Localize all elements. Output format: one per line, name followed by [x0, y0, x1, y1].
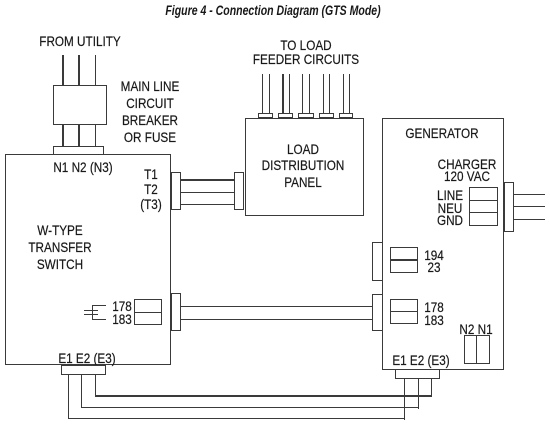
wire 183: [181, 319, 372, 320]
wire feeder 5a: [343, 74, 344, 114]
wire feeder 3a: [302, 74, 303, 114]
generator enclosure box: [382, 118, 505, 370]
wire E right vertical 3: [431, 379, 432, 397]
wire feeder 4b: [329, 74, 330, 114]
terminal bar 178/183 on generator left edge: [372, 294, 383, 331]
label FROM UTILITY: [12, 33, 148, 50]
wire feeder 1b: [269, 74, 270, 114]
wire feeder 1a: [262, 74, 263, 114]
label N1 N2 (N3): [15, 159, 151, 176]
feeder terminal 4: [319, 113, 334, 118]
wire charger GND: [514, 219, 546, 220]
feeder terminal 5: [339, 113, 354, 118]
terminal bar 194/23 on generator left edge: [372, 242, 383, 281]
terminal block 194/23 inside generator: [390, 247, 418, 273]
label 194 23: [366, 250, 502, 275]
wire T3: [181, 204, 235, 205]
terminal bar charger on generator right edge: [504, 182, 514, 233]
wire E horizontal bottom: [68, 418, 405, 419]
wire feeder 2b: [289, 74, 290, 114]
label N2 N1: [408, 323, 544, 336]
label T1 T2 (T3): [83, 167, 219, 213]
wire 178: [181, 306, 372, 307]
wire breaker output 1: [62, 125, 63, 148]
wire feeder 3b: [309, 74, 310, 114]
wire E horizontal top: [95, 395, 432, 396]
wire utility line 1: [62, 55, 63, 86]
labels LINE NEU GND: [382, 190, 518, 228]
wire T2: [181, 192, 235, 193]
wire utility line 2: [78, 55, 79, 86]
wire breaker output 3: [95, 125, 96, 148]
label TO LOAD: [238, 39, 374, 67]
wire charger NEU: [514, 206, 546, 207]
circuit breaker (main line circuit breaker or fuse): [53, 85, 107, 126]
wire utility line 3: [95, 55, 96, 86]
terminal bar 178/183 on transfer switch right edge: [171, 293, 181, 331]
wire E horizontal middle: [81, 407, 419, 408]
label CHARGER 120 VAC: [399, 159, 535, 184]
terminal bar T on load distribution panel left edge: [234, 172, 244, 209]
label GENERATOR: [374, 125, 510, 142]
wire T1: [181, 179, 235, 180]
wire breaker output 2: [78, 125, 79, 148]
wire E left vertical 2: [81, 374, 82, 408]
wire charger LINE: [514, 194, 546, 195]
terminal block 178/183 inside generator: [390, 299, 418, 325]
label W-TYPE TRANSFER SWITCH: [0, 223, 128, 273]
feeder terminal 3: [298, 113, 313, 118]
terminal bar T on transfer switch right edge: [171, 172, 181, 209]
label MAIN LINE CIRCUIT BREAKER OR FUSE: [82, 78, 218, 146]
load distribution panel box: [245, 118, 365, 216]
wire E left vertical 3: [95, 374, 96, 397]
wire feeder 2a: [282, 74, 283, 114]
wire feeder 4a: [323, 74, 324, 114]
feeder terminal 2: [278, 113, 294, 118]
title caption "Figure 4 - Connection Diagram (GTS Mode)": [143, 2, 402, 19]
terminal lug bar E below transfer switch: [61, 365, 106, 375]
wire E right vertical 2: [418, 379, 419, 409]
terminal block LINE/NEU/GND (3 cells): [469, 187, 498, 226]
transfer switch enclosure box: [5, 154, 171, 365]
terminal block N2 N1 (2 cells): [464, 335, 490, 364]
label E1 E2 (E3) right: [353, 352, 489, 369]
label LOAD DISTRIBUTION PANEL: [235, 142, 371, 193]
terminal block 178/183 inside transfer switch: [134, 299, 162, 325]
label 178 183 (transfer switch): [54, 301, 190, 326]
wire E left vertical 1: [68, 374, 69, 419]
twisted-pair symbol for wires 178/183: [92, 305, 93, 319]
wire E right vertical 1: [404, 379, 405, 420]
terminal lug bar E below generator: [395, 369, 440, 379]
label E1 E2 (E3) left: [19, 350, 155, 367]
label 178 183 (generator): [366, 302, 502, 328]
terminal lug bar N1 N2 (N3) on transfer switch top: [53, 146, 103, 156]
feeder terminal 1: [258, 113, 273, 118]
wire feeder 5b: [349, 74, 350, 114]
